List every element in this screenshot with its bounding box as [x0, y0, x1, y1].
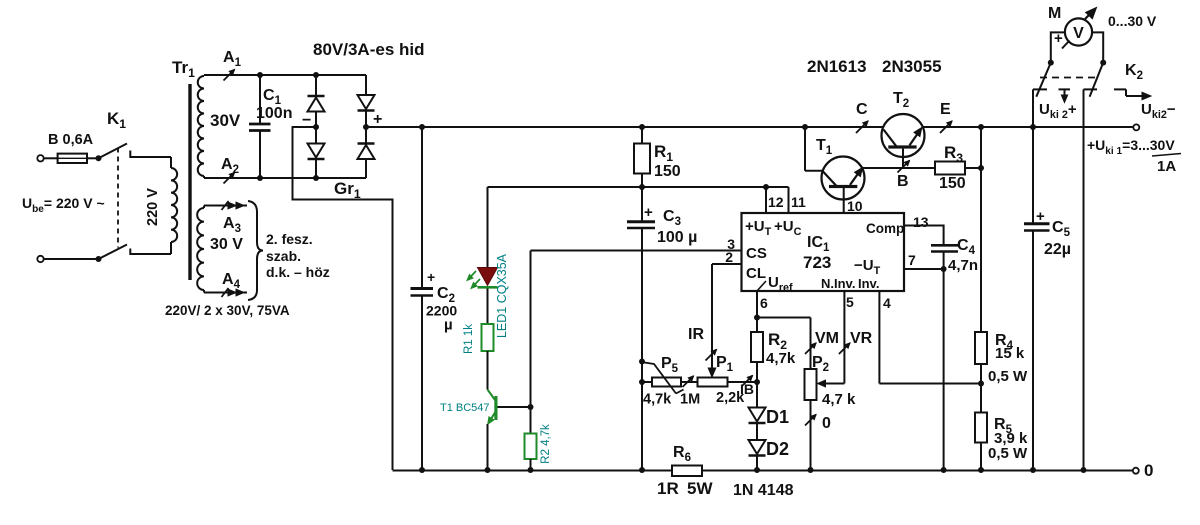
svg-text:VM: VM [815, 330, 839, 347]
svg-text:2: 2 [725, 249, 733, 265]
svg-text:4: 4 [883, 295, 891, 311]
svg-text:C: C [856, 101, 868, 118]
svg-text:7: 7 [908, 252, 916, 268]
svg-text:30 V: 30 V [210, 236, 243, 253]
svg-text:0...30 V: 0...30 V [1108, 13, 1157, 29]
svg-text:4,7k: 4,7k [643, 392, 672, 408]
svg-text:11: 11 [791, 194, 806, 210]
svg-text:4,7 k: 4,7 k [822, 391, 856, 408]
svg-text:1M: 1M [680, 392, 700, 408]
svg-text:D2: D2 [766, 439, 789, 459]
svg-text:CL: CL [746, 265, 766, 282]
svg-text:d.k. – höz: d.k. – höz [266, 264, 330, 280]
svg-text:IB: IB [740, 381, 754, 397]
svg-text:6: 6 [760, 295, 768, 311]
svg-text:B 0,6A: B 0,6A [48, 132, 94, 148]
svg-text:150: 150 [939, 175, 966, 192]
svg-text:1N 4148: 1N 4148 [733, 482, 794, 499]
svg-text:IR: IR [688, 326, 704, 343]
svg-text:szab.: szab. [266, 248, 301, 264]
svg-text:+: + [427, 269, 435, 285]
svg-text:100n: 100n [256, 105, 292, 122]
svg-text:0: 0 [822, 415, 831, 432]
svg-text:13: 13 [913, 214, 929, 230]
svg-text:15 k: 15 k [995, 345, 1025, 362]
svg-text:M: M [1048, 5, 1061, 22]
svg-text:LED1 CQX35A: LED1 CQX35A [495, 253, 509, 338]
svg-text:1A: 1A [1157, 158, 1176, 175]
svg-text:80V/3A-es hid: 80V/3A-es hid [313, 40, 425, 59]
svg-text:V: V [1073, 25, 1084, 42]
svg-text:+: + [644, 204, 653, 221]
svg-text:4,7k: 4,7k [766, 350, 796, 367]
svg-text:E: E [940, 101, 951, 118]
svg-text:0,5 W: 0,5 W [988, 368, 1028, 385]
svg-text:30V: 30V [210, 111, 241, 130]
svg-text:VR: VR [850, 330, 873, 347]
svg-text:D1: D1 [766, 407, 789, 427]
svg-text:R2 4,7k: R2 4,7k [540, 424, 552, 464]
svg-text:1R: 1R [657, 479, 679, 498]
svg-text:5: 5 [846, 294, 854, 310]
svg-text:100 µ: 100 µ [657, 229, 697, 246]
svg-text:+: + [1054, 30, 1063, 47]
svg-text:Inv.: Inv. [858, 276, 879, 291]
svg-text:0: 0 [1144, 461, 1153, 480]
svg-text:+: + [373, 111, 382, 128]
svg-text:2N3055: 2N3055 [882, 57, 942, 76]
svg-text:Comp: Comp [866, 221, 904, 236]
svg-text:150: 150 [654, 163, 681, 180]
svg-text:CS: CS [746, 245, 767, 262]
svg-text:220 V: 220 V [145, 188, 161, 226]
svg-text:0,5 W: 0,5 W [988, 445, 1028, 462]
svg-text:22µ: 22µ [1044, 241, 1071, 258]
svg-text:4,7n: 4,7n [948, 257, 978, 274]
svg-text:T1 BC547: T1 BC547 [440, 402, 490, 414]
svg-text:2N1613: 2N1613 [807, 57, 867, 76]
svg-text:10: 10 [847, 198, 863, 214]
svg-text:R1 1k: R1 1k [463, 324, 475, 354]
svg-text:220V/ 2 x 30V, 75VA: 220V/ 2 x 30V, 75VA [165, 303, 290, 318]
svg-text:12: 12 [768, 194, 784, 210]
svg-text:N.Inv.: N.Inv. [821, 276, 855, 291]
svg-text:µ: µ [444, 317, 453, 334]
svg-text:B: B [897, 173, 909, 190]
svg-text:2. fesz.: 2. fesz. [266, 231, 313, 247]
svg-text:723: 723 [803, 253, 831, 272]
svg-text:5W: 5W [687, 479, 713, 498]
svg-text:+: + [1036, 208, 1045, 225]
